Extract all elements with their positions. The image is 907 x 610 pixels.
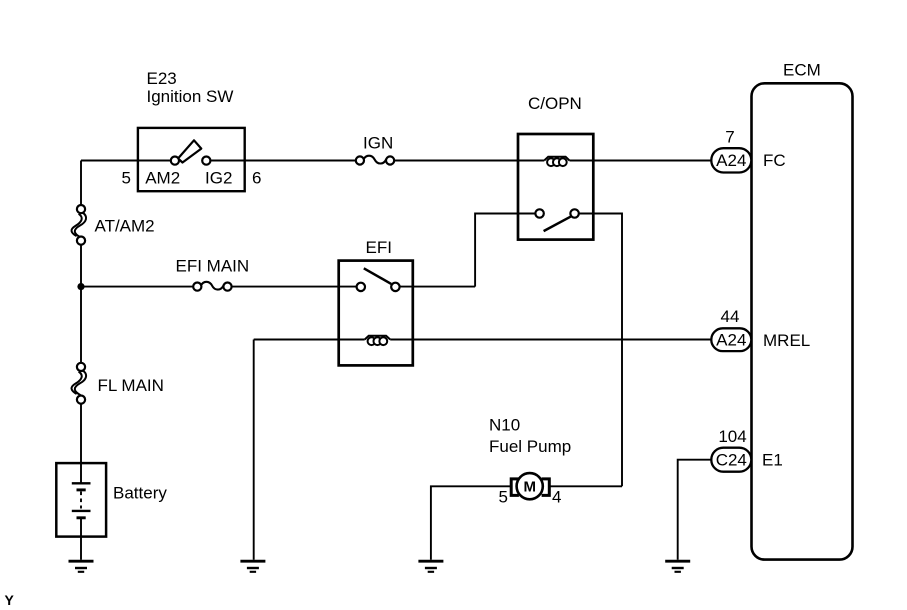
svg-text:C/OPN: C/OPN [528, 94, 582, 113]
svg-text:IG2: IG2 [205, 169, 232, 188]
svg-text:EFI: EFI [366, 238, 392, 257]
svg-text:E1: E1 [762, 451, 783, 470]
svg-text:7: 7 [725, 128, 734, 147]
svg-text:6: 6 [252, 169, 261, 188]
svg-text:4: 4 [552, 488, 561, 507]
svg-text:Y: Y [5, 592, 15, 608]
svg-text:E23: E23 [147, 69, 177, 88]
svg-text:Ignition SW: Ignition SW [147, 87, 234, 106]
svg-text:ECM: ECM [783, 61, 821, 80]
svg-text:FC: FC [763, 151, 786, 170]
svg-text:AT/AM2: AT/AM2 [95, 217, 155, 236]
svg-text:Fuel Pump: Fuel Pump [489, 437, 571, 456]
svg-text:A24: A24 [716, 331, 746, 350]
svg-text:N10: N10 [489, 416, 520, 435]
svg-text:FL MAIN: FL MAIN [98, 376, 164, 395]
svg-text:A24: A24 [716, 151, 746, 170]
svg-text:5: 5 [122, 169, 131, 188]
svg-text:AM2: AM2 [145, 169, 180, 188]
svg-text:104: 104 [718, 427, 746, 446]
svg-text:EFI MAIN: EFI MAIN [176, 257, 250, 276]
svg-text:IGN: IGN [363, 134, 393, 153]
svg-text:C24: C24 [716, 451, 747, 470]
svg-text:44: 44 [721, 307, 740, 326]
svg-text:MREL: MREL [763, 331, 810, 350]
svg-text:5: 5 [499, 488, 508, 507]
svg-text:M: M [523, 479, 536, 496]
svg-text:Battery: Battery [113, 484, 167, 503]
